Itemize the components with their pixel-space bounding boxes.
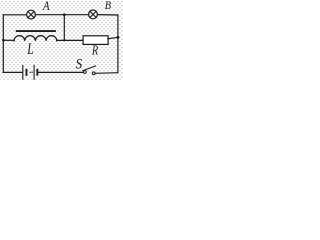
battery cell 1 positive plate bbox=[22, 66, 24, 80]
wire bottom-middle segment bbox=[38, 71, 83, 73]
node junction top (dot) bbox=[63, 13, 66, 16]
wire middle-right segment bbox=[57, 39, 83, 41]
switch S right terminal bbox=[92, 72, 95, 75]
lamp A bbox=[27, 10, 36, 19]
battery ellipsis dots bbox=[30, 72, 33, 73]
node junction middle (dot) bbox=[63, 39, 65, 41]
label S bbox=[76, 56, 83, 72]
svg-text:B: B bbox=[105, 0, 112, 12]
wire top-right segment bbox=[97, 14, 118, 16]
wire bottom-left segment bbox=[3, 71, 22, 73]
wire right edge bbox=[117, 15, 119, 73]
switch S blade bbox=[83, 66, 96, 71]
lamp B bbox=[89, 10, 98, 19]
battery cell 2 positive plate bbox=[33, 65, 35, 79]
inductor L coil bbox=[14, 36, 57, 41]
wire vertical middle branch bbox=[63, 15, 65, 41]
battery cell 1 negative plate (thick) bbox=[26, 69, 28, 76]
wire middle-left segment bbox=[3, 39, 14, 41]
inductor L iron core bar bbox=[16, 30, 56, 32]
svg-text:R: R bbox=[91, 42, 99, 57]
node junction right (dot) bbox=[116, 36, 119, 39]
label B bbox=[105, 0, 112, 12]
battery cell 2 negative plate (thick) bbox=[36, 69, 38, 76]
wire bottom-right segment bbox=[95, 72, 118, 75]
svg-text:S: S bbox=[76, 56, 83, 72]
wire left edge bbox=[2, 15, 4, 73]
svg-text:L: L bbox=[26, 41, 33, 58]
node junction left (dot) bbox=[2, 39, 5, 42]
wire resistor to right edge bbox=[108, 37, 118, 38]
label R bbox=[91, 42, 99, 57]
svg-text:A: A bbox=[42, 0, 50, 13]
resistor R bbox=[83, 36, 108, 45]
wire top-middle segment bbox=[35, 14, 88, 16]
wire top-left segment bbox=[3, 14, 26, 16]
label L bbox=[26, 41, 33, 58]
switch S left terminal bbox=[84, 71, 87, 74]
label A bbox=[42, 0, 50, 13]
